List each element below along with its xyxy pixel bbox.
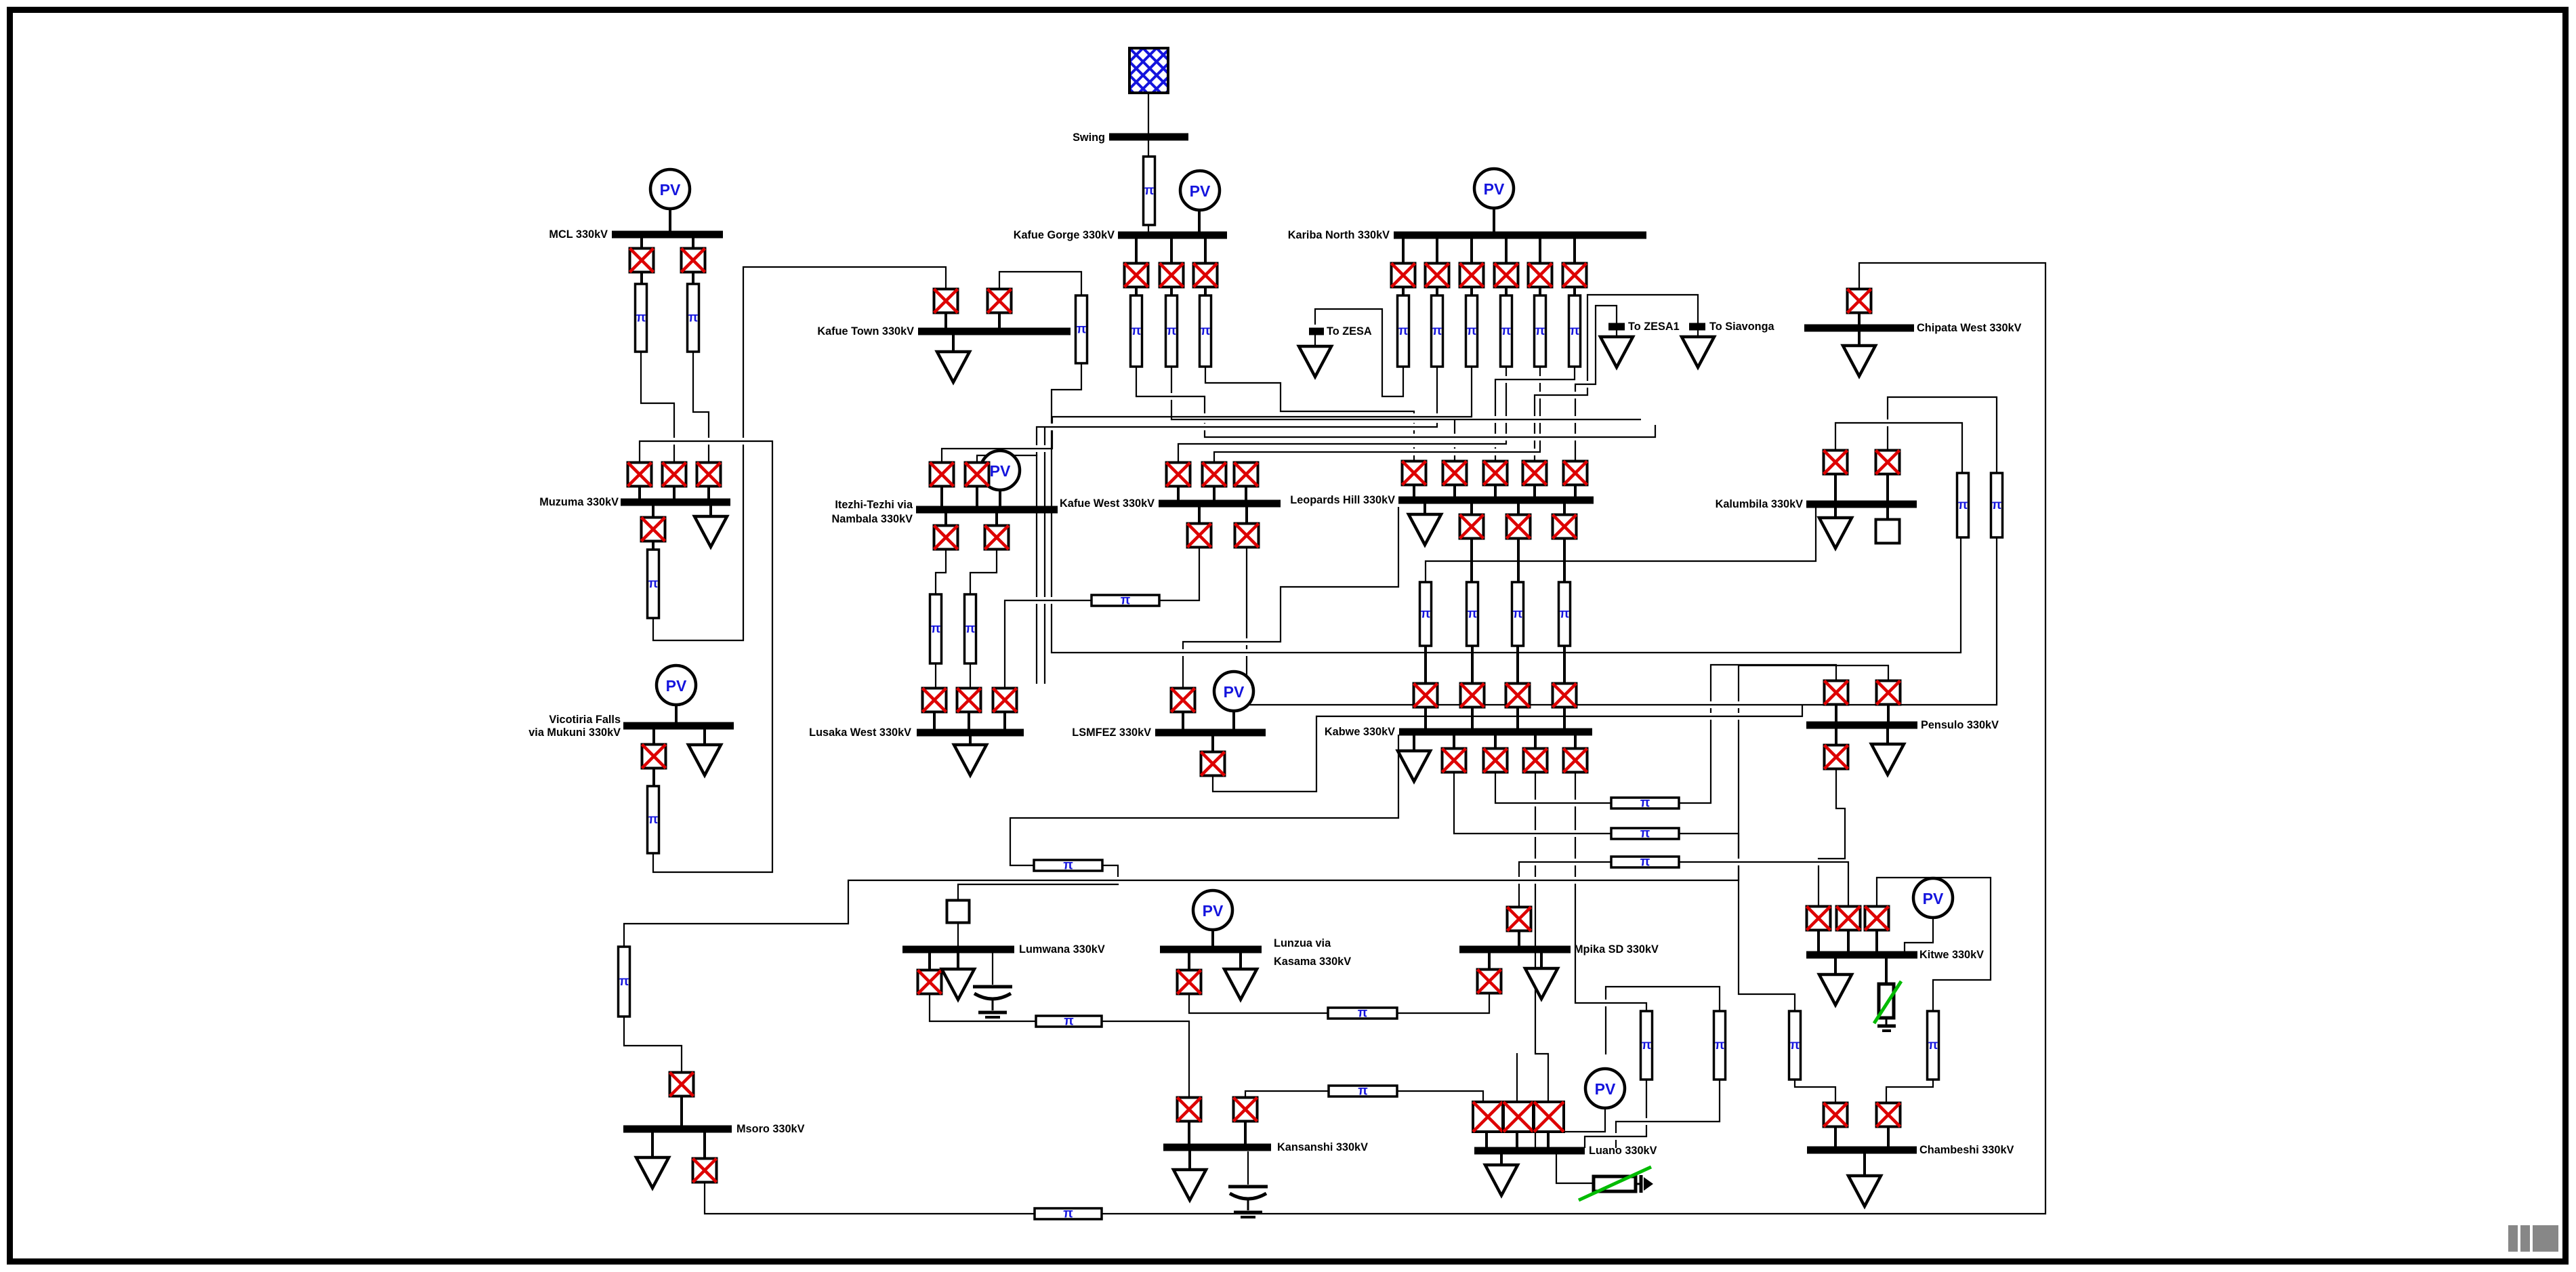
svg-text:π: π xyxy=(1640,827,1650,841)
svg-text:π: π xyxy=(1064,1014,1074,1029)
svg-text:π: π xyxy=(1063,859,1073,873)
svg-text:PV: PV xyxy=(1190,182,1211,200)
svg-text:π: π xyxy=(1640,796,1650,811)
svg-text:To Siavonga: To Siavonga xyxy=(1709,321,1775,333)
svg-text:Mpika SD 330kV: Mpika SD 330kV xyxy=(1574,943,1659,956)
svg-text:π: π xyxy=(1063,1207,1073,1221)
svg-text:PV: PV xyxy=(990,462,1011,480)
svg-text:Chambeshi 330kV: Chambeshi 330kV xyxy=(1919,1144,2014,1156)
svg-text:π: π xyxy=(965,622,976,636)
svg-text:π: π xyxy=(1167,324,1177,338)
svg-text:Swing: Swing xyxy=(1073,131,1105,144)
svg-text:Kafue Gorge 330kV: Kafue Gorge 330kV xyxy=(1014,229,1115,241)
svg-text:π: π xyxy=(648,577,659,591)
svg-text:π: π xyxy=(1398,324,1409,338)
svg-text:π: π xyxy=(1358,1006,1368,1021)
svg-text:π: π xyxy=(1642,1038,1652,1052)
svg-text:PV: PV xyxy=(1484,180,1505,198)
svg-text:π: π xyxy=(1358,1084,1368,1099)
svg-text:π: π xyxy=(1077,323,1087,337)
svg-text:π: π xyxy=(619,974,629,989)
svg-text:Lunzua via: Lunzua via xyxy=(1274,937,1331,949)
svg-text:Muzuma 330kV: Muzuma 330kV xyxy=(539,496,619,508)
svg-text:π: π xyxy=(636,311,646,325)
svg-text:Kariba North 330kV: Kariba North 330kV xyxy=(1288,229,1390,241)
svg-text:π: π xyxy=(1501,324,1512,338)
svg-text:Leopards Hill 330kV: Leopards Hill 330kV xyxy=(1290,494,1395,506)
svg-text:Nambala 330kV: Nambala 330kV xyxy=(832,513,913,525)
svg-text:PV: PV xyxy=(1923,890,1944,907)
svg-text:π: π xyxy=(688,311,699,325)
svg-text:π: π xyxy=(1928,1038,1938,1052)
svg-text:Itezhi-Tezhi via: Itezhi-Tezhi via xyxy=(835,499,913,511)
svg-text:π: π xyxy=(1201,324,1211,338)
svg-text:To ZESA1: To ZESA1 xyxy=(1628,321,1680,333)
svg-text:PV: PV xyxy=(1224,683,1245,701)
svg-text:Vicotiria Falls: Vicotiria Falls xyxy=(549,714,621,726)
svg-text:π: π xyxy=(1421,607,1431,621)
svg-text:π: π xyxy=(1467,324,1477,338)
svg-text:π: π xyxy=(931,622,941,636)
svg-text:Lusaka West 330kV: Lusaka West 330kV xyxy=(809,726,911,739)
svg-text:Kitwe 330kV: Kitwe 330kV xyxy=(1919,949,1984,961)
svg-text:Kansanshi 330kV: Kansanshi 330kV xyxy=(1277,1141,1368,1153)
svg-text:Kalumbila 330kV: Kalumbila 330kV xyxy=(1716,498,1804,510)
svg-text:π: π xyxy=(1640,855,1650,869)
svg-text:π: π xyxy=(1570,324,1580,338)
svg-text:π: π xyxy=(1535,324,1545,338)
svg-text:Pensulo 330kV: Pensulo 330kV xyxy=(1921,719,1999,731)
svg-text:PV: PV xyxy=(666,677,687,695)
svg-text:π: π xyxy=(1513,607,1523,621)
svg-text:π: π xyxy=(1958,498,1968,512)
svg-text:π: π xyxy=(1992,498,2002,512)
svg-text:π: π xyxy=(1790,1038,1800,1052)
svg-text:Kafue West 330kV: Kafue West 330kV xyxy=(1060,497,1155,510)
svg-text:Kabwe 330kV: Kabwe 330kV xyxy=(1325,726,1395,738)
svg-text:π: π xyxy=(1432,324,1442,338)
svg-text:PV: PV xyxy=(1595,1080,1616,1098)
svg-text:π: π xyxy=(648,813,659,827)
svg-text:π: π xyxy=(1131,324,1142,338)
svg-text:Kasama 330kV: Kasama 330kV xyxy=(1274,956,1351,968)
svg-text:Luano 330kV: Luano 330kV xyxy=(1589,1145,1657,1157)
svg-text:Lumwana 330kV: Lumwana 330kV xyxy=(1019,943,1105,956)
svg-text:π: π xyxy=(1121,594,1131,608)
svg-text:π: π xyxy=(1560,607,1570,621)
svg-text:π: π xyxy=(1468,607,1478,621)
svg-text:Kafue Town 330kV: Kafue Town 330kV xyxy=(817,325,914,337)
svg-text:MCL 330kV: MCL 330kV xyxy=(549,228,608,241)
svg-text:Chipata West 330kV: Chipata West 330kV xyxy=(1917,322,2022,334)
svg-text:Msoro 330kV: Msoro 330kV xyxy=(736,1123,805,1135)
svg-text:PV: PV xyxy=(1203,902,1224,920)
svg-text:LSMFEZ 330kV: LSMFEZ 330kV xyxy=(1072,726,1151,739)
svg-text:PV: PV xyxy=(660,181,681,199)
svg-text:via Mukuni 330kV: via Mukuni 330kV xyxy=(528,726,621,739)
svg-text:To ZESA: To ZESA xyxy=(1327,325,1372,337)
svg-text:π: π xyxy=(1715,1038,1725,1052)
svg-text:π: π xyxy=(1144,184,1155,198)
